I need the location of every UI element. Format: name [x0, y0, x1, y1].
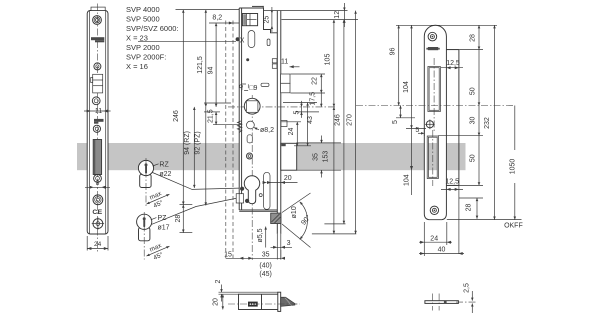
svg-text:ø8,2: ø8,2: [260, 127, 274, 134]
svg-text:96: 96: [389, 48, 396, 56]
svg-text:35: 35: [312, 153, 319, 161]
svg-text:5: 5: [293, 110, 300, 114]
svg-text:105: 105: [325, 54, 332, 66]
svg-text:3: 3: [287, 240, 291, 247]
svg-text:24: 24: [430, 235, 438, 242]
svg-text:43: 43: [307, 116, 314, 124]
svg-text:ø10: ø10: [291, 206, 298, 218]
svg-text:X: X: [240, 37, 245, 44]
svg-text:28: 28: [466, 204, 473, 212]
svg-text:X = 16: X = 16: [126, 62, 148, 71]
svg-text:104: 104: [404, 174, 411, 186]
svg-text:153: 153: [322, 151, 329, 163]
svg-text:35: 35: [262, 251, 270, 258]
svg-text:PZ: PZ: [158, 215, 168, 222]
svg-text:12,5: 12,5: [445, 179, 459, 186]
svg-text:8: 8: [96, 180, 100, 187]
svg-text:104: 104: [403, 81, 410, 93]
svg-text:(40): (40): [259, 262, 271, 269]
svg-text:28: 28: [469, 34, 476, 42]
svg-text:1050: 1050: [510, 159, 517, 175]
svg-text:40: 40: [438, 247, 446, 254]
svg-text:8,2: 8,2: [212, 15, 222, 22]
svg-text:SVP/SVZ 6000:: SVP/SVZ 6000:: [126, 24, 179, 33]
svg-text:(45): (45): [259, 271, 271, 278]
svg-text:ø5,5: ø5,5: [257, 228, 264, 242]
svg-text:SVP 2000F:: SVP 2000F:: [126, 53, 166, 62]
svg-text:SVP 2000: SVP 2000: [126, 43, 160, 52]
svg-text:ø17: ø17: [158, 225, 170, 232]
svg-text:2: 2: [215, 279, 222, 283]
svg-text:2,5: 2,5: [464, 283, 471, 293]
svg-text:28: 28: [175, 215, 182, 223]
svg-text:ø22: ø22: [159, 171, 171, 178]
svg-text:246: 246: [173, 110, 180, 122]
svg-text:20: 20: [212, 298, 219, 306]
svg-text:121,5: 121,5: [197, 56, 204, 74]
svg-text:5: 5: [392, 120, 399, 124]
svg-text:11: 11: [95, 108, 102, 115]
svg-text:30: 30: [469, 117, 476, 125]
svg-text:SVP 4000: SVP 4000: [126, 5, 160, 14]
svg-text:17,5: 17,5: [309, 92, 316, 106]
svg-text:24: 24: [94, 241, 102, 248]
svg-text:RZ: RZ: [159, 161, 169, 168]
svg-text:11: 11: [281, 58, 288, 65]
svg-text:270: 270: [346, 114, 353, 126]
svg-text:246: 246: [335, 114, 342, 126]
svg-text:SVP 5000: SVP 5000: [126, 15, 160, 24]
svg-text:□9: □9: [249, 85, 257, 92]
svg-text:12,5: 12,5: [446, 60, 460, 67]
svg-text:94 (RZ): 94 (RZ): [184, 131, 191, 155]
svg-text:50: 50: [469, 154, 476, 162]
svg-text:94: 94: [207, 67, 214, 75]
svg-text:20: 20: [284, 175, 292, 182]
svg-text:92 (PZ): 92 (PZ): [194, 131, 201, 154]
svg-text:OKFF: OKFF: [504, 223, 523, 230]
svg-text:15: 15: [224, 251, 232, 258]
svg-text:232: 232: [484, 117, 491, 129]
svg-text:21,5: 21,5: [207, 109, 214, 123]
svg-text:22: 22: [312, 77, 319, 85]
svg-text:50: 50: [469, 87, 476, 95]
svg-text:CE: CE: [92, 209, 102, 216]
svg-text:25: 25: [263, 16, 270, 24]
svg-text:24: 24: [288, 128, 295, 136]
svg-text:12: 12: [334, 11, 341, 19]
